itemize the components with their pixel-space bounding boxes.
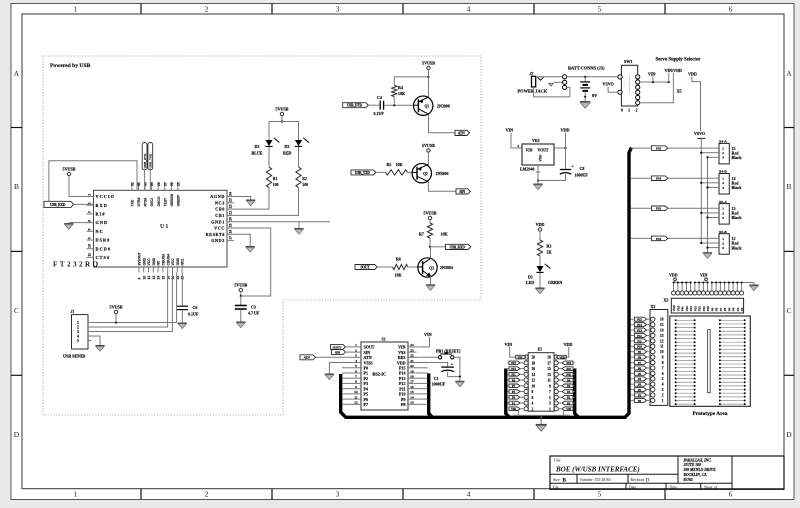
- svg-text:D: D: [14, 430, 20, 439]
- svg-text:P10: P10: [637, 345, 642, 349]
- svg-text:2: 2: [205, 490, 209, 499]
- ground at U1 GND: [64, 224, 73, 230]
- svg-text:Title: Title: [554, 459, 561, 463]
- svg-text:NC: NC: [157, 260, 161, 265]
- svg-text:Powered by USB: Powered by USB: [50, 63, 91, 69]
- wire USB_TXD to U1: [149, 170, 151, 191]
- svg-text:TXD: TXD: [131, 199, 135, 206]
- wire ground rail to X4-A: [708, 156, 714, 158]
- IC U1 FT232RQ body: [94, 190, 228, 267]
- border row ticks left: [11, 127, 22, 129]
- U1 left pins: [87, 196, 94, 198]
- svg-text:CBUS3: CBUS3: [162, 254, 166, 266]
- svg-text:17: 17: [410, 380, 414, 384]
- svg-text:100: 100: [302, 183, 308, 187]
- svg-text:1: 1: [74, 5, 78, 14]
- svg-text:27: 27: [163, 182, 167, 186]
- svg-text:R6: R6: [396, 257, 401, 262]
- wire U1 CB0 to LED R1: [234, 188, 269, 210]
- svg-text:16: 16: [166, 276, 170, 280]
- svg-text:1000UF: 1000UF: [432, 381, 446, 386]
- svg-text:Black: Black: [732, 215, 743, 220]
- capacitor C3: [240, 296, 242, 305]
- svg-text:VSS: VSS: [566, 407, 571, 411]
- header X5-B servo: [719, 234, 729, 255]
- svg-text:9V: 9V: [592, 93, 598, 98]
- svg-text:7: 7: [662, 366, 664, 370]
- svg-text:2: 2: [662, 393, 664, 397]
- svg-text:5VUSB: 5VUSB: [110, 305, 123, 310]
- svg-text:6: 6: [729, 490, 733, 499]
- svg-text:P14: P14: [566, 361, 571, 365]
- svg-text:P11: P11: [637, 339, 642, 343]
- svg-text:Prototype Area: Prototype Area: [693, 411, 728, 417]
- U1 right pins: [227, 196, 234, 198]
- svg-text:P2: P2: [740, 307, 744, 311]
- svg-text:AGND: AGND: [210, 194, 225, 199]
- svg-text:16: 16: [660, 318, 664, 322]
- svg-text:GND: GND: [96, 220, 109, 225]
- svg-text:1: 1: [722, 207, 724, 211]
- svg-text:X2: X2: [651, 304, 656, 309]
- svg-text:5: 5: [598, 5, 602, 14]
- svg-text:14: 14: [157, 276, 161, 280]
- wire batt top to switch: [567, 76, 620, 78]
- bus branch right of X1: [575, 369, 579, 418]
- svg-text:5: 5: [662, 377, 664, 381]
- S1 left pins: [353, 346, 362, 348]
- wire D1 to ground: [539, 273, 541, 288]
- svg-text:VSS: VSS: [539, 154, 543, 162]
- svg-text:18: 18: [410, 375, 414, 379]
- svg-text:B: B: [14, 182, 19, 191]
- ground at D1: [535, 288, 544, 294]
- svg-text:2N3906: 2N3906: [436, 171, 449, 176]
- svg-text:VIN: VIN: [700, 273, 707, 278]
- ground at X1: [536, 425, 547, 432]
- svg-text:VSS: VSS: [511, 407, 516, 411]
- svg-text:GND: GND: [176, 257, 180, 265]
- svg-text:CB1: CB1: [215, 213, 225, 218]
- X1 VSS loop to ground: [513, 411, 518, 416]
- svg-text:S1: S1: [382, 337, 386, 342]
- svg-text:ROCKLIN, CA: ROCKLIN, CA: [684, 473, 708, 477]
- svg-text:GND2: GND2: [211, 238, 225, 243]
- svg-text:NC: NC: [96, 229, 104, 234]
- svg-text:12: 12: [354, 401, 358, 405]
- svg-text:32: 32: [131, 182, 135, 186]
- wire Q2 collector to SIN: [428, 182, 456, 192]
- svg-text:2: 2: [355, 348, 357, 352]
- svg-text:BLUE: BLUE: [252, 151, 263, 156]
- wire U1 RESET to ground: [234, 234, 250, 246]
- X1 left flags: [516, 355, 526, 359]
- svg-text:1000UF: 1000UF: [575, 173, 589, 178]
- svg-text:3: 3: [662, 388, 664, 392]
- svg-text:USBDP: USBDP: [176, 194, 180, 207]
- wire USB_DTR to U1: [144, 170, 146, 191]
- svg-text:X5-A: X5-A: [719, 200, 727, 204]
- net flag P13: [652, 206, 668, 211]
- svg-text:C: C: [786, 306, 791, 315]
- svg-text:X5-B: X5-B: [719, 230, 727, 234]
- resistor R3 1K: [537, 240, 542, 256]
- svg-text:16: 16: [532, 367, 536, 371]
- svg-text:6: 6: [532, 396, 534, 400]
- svg-text:USB_TXD: USB_TXD: [149, 153, 153, 168]
- svg-text:2N3904: 2N3904: [440, 265, 453, 270]
- svg-text:ATN: ATN: [303, 356, 310, 360]
- svg-text:18: 18: [532, 361, 536, 365]
- svg-text:P14: P14: [656, 177, 661, 181]
- svg-text:3: 3: [722, 246, 724, 250]
- svg-text:ATN: ATN: [458, 131, 465, 135]
- wire Q3 emitter to ground: [430, 276, 432, 284]
- svg-text:CB0: CB0: [215, 207, 225, 212]
- svg-text:22: 22: [229, 204, 233, 208]
- svg-text:10K: 10K: [441, 232, 449, 237]
- svg-text:5: 5: [598, 490, 602, 499]
- wire VSVO to X4-B: [701, 182, 713, 184]
- svg-text:VDD: VDD: [536, 222, 545, 227]
- svg-text:VIN: VIN: [506, 128, 514, 133]
- svg-text:VSVO: VSVO: [603, 82, 614, 87]
- svg-text:5VUSB: 5VUSB: [422, 61, 435, 66]
- svg-text:13: 13: [660, 334, 664, 338]
- svg-text:USBDM: USBDM: [170, 194, 174, 207]
- wires S1 P0-P7 to bus: [342, 367, 353, 369]
- svg-text:22: 22: [410, 354, 414, 358]
- svg-text:VDD: VDD: [561, 128, 570, 133]
- header X4-B servo: [719, 174, 729, 195]
- resistor R5 10K: [386, 170, 408, 175]
- svg-text:20: 20: [532, 356, 536, 360]
- svg-text:2: 2: [518, 144, 520, 148]
- svg-text:31: 31: [137, 182, 141, 186]
- X2 pins and flags: [651, 317, 655, 321]
- svg-text:OSCI: OSCI: [150, 198, 154, 206]
- svg-text:SOUT: SOUT: [361, 265, 371, 269]
- wire battery to ground: [584, 91, 586, 97]
- svg-text:1: 1: [549, 407, 551, 411]
- wire D3 to R2: [298, 147, 300, 167]
- svg-text:VCC: VCC: [214, 226, 225, 231]
- svg-text:GND: GND: [152, 257, 156, 265]
- battery BT1 9V: [584, 77, 586, 82]
- svg-text:19: 19: [410, 369, 414, 373]
- svg-text:P11: P11: [511, 373, 516, 377]
- svg-text:14: 14: [532, 373, 536, 377]
- svg-text:26: 26: [170, 182, 174, 186]
- svg-text:VCC: VCC: [147, 258, 151, 266]
- X3 power rails: [674, 282, 691, 284]
- svg-text:C8: C8: [580, 166, 585, 171]
- svg-text:3: 3: [88, 211, 92, 213]
- svg-text:A: A: [786, 69, 792, 78]
- svg-text:VDD: VDD: [669, 273, 678, 278]
- svg-text:5: 5: [355, 364, 357, 368]
- svg-text:1: 1: [88, 194, 92, 196]
- ground at VSS1: [325, 374, 334, 380]
- svg-text:2: 2: [636, 108, 638, 113]
- svg-text:U1: U1: [160, 224, 169, 230]
- svg-text:11: 11: [354, 395, 358, 399]
- wire U1 GND1: [234, 221, 330, 223]
- wire 5VUSB to VCCIO: [69, 176, 94, 197]
- X3 pin circles and wires: [673, 283, 675, 291]
- wires S1 P8-P15 to bus: [417, 367, 428, 369]
- svg-text:3: 3: [355, 354, 357, 358]
- svg-text:1: 1: [722, 237, 724, 241]
- resistor R2 100: [296, 167, 301, 188]
- wire 5VUSB LED rail: [269, 122, 299, 141]
- breadboard rows: [675, 319, 677, 321]
- svg-text:11: 11: [547, 379, 551, 383]
- wire VSVO to X5-A: [701, 212, 713, 214]
- svg-text:6: 6: [729, 5, 733, 14]
- svg-text:P14: P14: [637, 323, 642, 327]
- wire bus to P15 flag: [631, 147, 652, 149]
- svg-text:P12: P12: [566, 367, 571, 371]
- svg-text:P13: P13: [656, 207, 661, 211]
- wire batt bottom conn: [567, 87, 570, 97]
- svg-text:6: 6: [88, 220, 92, 222]
- svg-text:CBUS4: CBUS4: [166, 254, 170, 266]
- svg-text:RESET#: RESET#: [206, 232, 226, 237]
- svg-text:3: 3: [722, 186, 724, 190]
- svg-text:R2: R2: [302, 177, 307, 181]
- resistor R1 100: [266, 167, 271, 188]
- wire VIN/VDD to SW1 pin6: [640, 73, 674, 103]
- svg-text:12: 12: [660, 339, 664, 343]
- svg-text:5VUSB: 5VUSB: [63, 167, 76, 172]
- bus branch left of X1: [506, 369, 510, 418]
- svg-text:D: D: [646, 478, 650, 484]
- svg-text:1: 1: [628, 108, 630, 113]
- svg-text:Q1: Q1: [425, 105, 430, 109]
- svg-text:TEST: TEST: [163, 197, 167, 207]
- svg-text:10: 10: [88, 244, 92, 248]
- svg-text:5: 5: [88, 229, 92, 231]
- wire USB_TXD to R5: [376, 171, 386, 173]
- svg-text:C4: C4: [377, 95, 382, 100]
- servo ground rail: [707, 157, 709, 252]
- svg-text:9: 9: [88, 237, 92, 239]
- svg-text:VIN: VIN: [505, 342, 513, 347]
- svg-text:6: 6: [662, 372, 664, 376]
- regulator VR1 LM2940: [522, 144, 554, 165]
- wire VSS1 to ground: [329, 363, 352, 374]
- svg-text:P15: P15: [656, 147, 661, 151]
- svg-text:7: 7: [549, 390, 551, 394]
- svg-text:1: 1: [722, 147, 724, 151]
- svg-text:3V3OUT: 3V3OUT: [138, 251, 142, 265]
- wire Q1 emitter to 5VUSB: [428, 77, 430, 97]
- jack switch contact: [549, 83, 554, 86]
- svg-text:Black: Black: [732, 245, 743, 250]
- svg-text:GREEN: GREEN: [548, 280, 562, 285]
- wire PB1 to ground node: [454, 357, 460, 376]
- connector J1 USB MINIB: [72, 315, 89, 349]
- svg-text:14: 14: [410, 395, 414, 399]
- svg-text:R4: R4: [398, 85, 403, 90]
- svg-text:1K: 1K: [547, 250, 553, 255]
- net flag ATN at S1: [300, 355, 316, 360]
- svg-text:DTR#: DTR#: [137, 198, 141, 207]
- svg-text:1: 1: [74, 490, 78, 499]
- ground at battery: [580, 102, 591, 108]
- svg-text:B: B: [786, 182, 791, 191]
- svg-text:11: 11: [88, 253, 92, 257]
- ground at C3: [236, 322, 245, 328]
- svg-text:11: 11: [660, 345, 664, 349]
- svg-text:21: 21: [410, 359, 414, 363]
- svg-text:LED: LED: [526, 280, 534, 285]
- LED D3 RED: [295, 140, 302, 146]
- svg-text:Sheet of: Sheet of: [704, 485, 718, 489]
- svg-text:P13: P13: [511, 367, 516, 371]
- breadboard center slot: [708, 330, 711, 393]
- ground at servo rail: [703, 253, 712, 259]
- svg-text:X4-B: X4-B: [719, 170, 727, 174]
- svg-text:PB1 (RESET): PB1 (RESET): [436, 348, 461, 353]
- svg-text:13: 13: [152, 276, 156, 280]
- svg-text:4: 4: [355, 359, 357, 363]
- svg-text:USB_DTR: USB_DTR: [347, 104, 363, 108]
- svg-text:P8: P8: [401, 402, 405, 407]
- resistor R6 10K: [393, 264, 408, 269]
- svg-text:P13: P13: [637, 328, 642, 332]
- svg-text:23: 23: [229, 198, 233, 202]
- svg-text:17: 17: [547, 361, 551, 365]
- net flag USB_TXD input: [351, 170, 376, 175]
- svg-text:BS2-IC: BS2-IC: [373, 372, 387, 377]
- svg-text:14: 14: [660, 328, 664, 332]
- svg-text:21: 21: [229, 211, 233, 215]
- svg-text:10K: 10K: [396, 162, 404, 167]
- svg-text:13: 13: [547, 373, 551, 377]
- border column ticks top: [140, 4, 142, 15]
- svg-text:SUITE 100: SUITE 100: [684, 463, 701, 467]
- svg-text:Q2: Q2: [423, 172, 428, 176]
- svg-text:15: 15: [547, 367, 551, 371]
- connector X3 body: [671, 298, 743, 313]
- net flag SIN at S1: [332, 350, 346, 355]
- svg-text:10: 10: [142, 276, 146, 280]
- wire ground rail to X5-A: [708, 217, 714, 219]
- svg-text:15: 15: [660, 323, 664, 327]
- svg-text:PARALLAX, INC.: PARALLAX, INC.: [684, 458, 712, 462]
- svg-text:FT232RQ: FT232RQ: [53, 261, 101, 269]
- capacitor C6: [181, 273, 183, 306]
- net flag P14: [652, 176, 668, 181]
- svg-text:8: 8: [532, 390, 534, 394]
- ground at C6: [178, 323, 187, 329]
- svg-text:0.1UF: 0.1UF: [374, 111, 385, 116]
- svg-text:23: 23: [410, 348, 414, 352]
- ground at X3 rail: [753, 283, 755, 285]
- svg-text:RXD: RXD: [96, 203, 108, 208]
- svg-text:2: 2: [722, 151, 724, 155]
- svg-text:12: 12: [147, 276, 151, 280]
- svg-text:Black: Black: [732, 155, 743, 160]
- svg-text:18: 18: [171, 276, 175, 280]
- svg-text:4: 4: [662, 383, 664, 387]
- svg-text:SIN: SIN: [459, 190, 465, 194]
- wire VSVO to X4-A: [701, 152, 713, 154]
- svg-text:VDD: VDD: [564, 342, 573, 347]
- wire bus to P12 flag: [631, 237, 652, 239]
- svg-text:24: 24: [410, 343, 414, 347]
- svg-text:P15: P15: [511, 361, 516, 365]
- svg-text:D: D: [786, 430, 792, 439]
- svg-text:5VUSB: 5VUSB: [424, 211, 437, 216]
- wire J1 pin4 to ground: [88, 336, 100, 345]
- svg-text:10: 10: [532, 384, 536, 388]
- wire C8 to ground rail: [538, 174, 566, 180]
- net flag SIN output: [456, 189, 470, 194]
- svg-text:10K: 10K: [398, 91, 406, 96]
- header J5 USB_TXD: [148, 143, 153, 170]
- transistor Q3 2N3904: [418, 258, 437, 277]
- svg-text:5VUSB: 5VUSB: [276, 107, 289, 112]
- socket S1 BS2-IC body: [361, 342, 408, 410]
- net flag ATN output: [455, 130, 470, 135]
- svg-text:VIN: VIN: [526, 149, 533, 153]
- bus branch right of S1: [429, 373, 433, 417]
- svg-text:20: 20: [229, 217, 233, 221]
- svg-text:16: 16: [410, 385, 414, 389]
- prototype breadboard body: [670, 316, 751, 406]
- svg-text:USB_TXD: USB_TXD: [355, 171, 371, 175]
- svg-text:1: 1: [355, 343, 357, 347]
- svg-text:10: 10: [354, 390, 358, 394]
- wire R4 to 5VUSB rail: [394, 77, 428, 86]
- svg-text:19: 19: [229, 223, 233, 227]
- wire R5 to Q2 base: [408, 171, 413, 173]
- U1 bottom pins: [138, 267, 140, 273]
- svg-text:13: 13: [410, 401, 414, 405]
- svg-text:GND: GND: [142, 257, 146, 265]
- svg-text:15: 15: [410, 390, 414, 394]
- svg-text:7: 7: [355, 375, 357, 379]
- wire U1 CB1 to LED R2: [234, 188, 299, 216]
- svg-text:VIN: VIN: [424, 332, 432, 337]
- svg-text:2: 2: [722, 181, 724, 185]
- svg-text:P12: P12: [637, 334, 642, 338]
- wire Q3 collector to junction: [430, 247, 432, 259]
- wire junction to USB_RXD flag: [430, 246, 446, 248]
- svg-text:2: 2: [722, 241, 724, 245]
- svg-text:Time:: Time:: [669, 485, 678, 489]
- svg-text:5VUSB: 5VUSB: [234, 283, 247, 288]
- ground at VR1: [537, 181, 539, 184]
- LED D1 GREEN: [536, 266, 543, 272]
- svg-text:10K: 10K: [395, 273, 403, 278]
- wire U1 AGND to ground: [234, 197, 251, 200]
- svg-text:X4-A: X4-A: [719, 140, 727, 144]
- ground at AGND: [246, 200, 255, 206]
- title block frame: [550, 456, 784, 489]
- svg-text:5: 5: [77, 339, 79, 343]
- svg-text:0.1UF: 0.1UF: [188, 312, 199, 317]
- resistor R7 10K: [427, 223, 432, 238]
- svg-text:4: 4: [467, 490, 471, 499]
- svg-text:VDD: VDD: [559, 356, 566, 360]
- svg-text:2: 2: [77, 326, 79, 330]
- svg-text:2: 2: [205, 5, 209, 14]
- net flag USB_DTR input: [343, 103, 369, 108]
